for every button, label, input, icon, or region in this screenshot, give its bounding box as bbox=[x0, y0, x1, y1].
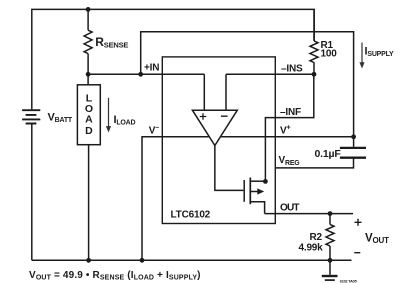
svg-text:VBATT: VBATT bbox=[48, 111, 73, 123]
svg-text:RSENSE: RSENSE bbox=[95, 35, 128, 50]
svg-text:V–: V– bbox=[149, 124, 159, 136]
svg-text:ILOAD: ILOAD bbox=[114, 114, 136, 126]
svg-text:4.99k: 4.99k bbox=[299, 243, 324, 254]
svg-text:–INS: –INS bbox=[281, 63, 303, 74]
svg-text:0.1µF: 0.1µF bbox=[315, 148, 342, 160]
svg-text:6102 TA05: 6102 TA05 bbox=[340, 279, 357, 283]
svg-text:A: A bbox=[85, 114, 93, 126]
svg-text:LTC6102: LTC6102 bbox=[171, 209, 211, 220]
svg-text:100: 100 bbox=[321, 49, 338, 60]
svg-text:D: D bbox=[85, 125, 93, 137]
svg-text:–INF: –INF bbox=[280, 107, 301, 118]
svg-text:R2: R2 bbox=[310, 232, 323, 243]
svg-text:V+: V+ bbox=[280, 124, 290, 136]
svg-text:VOUT: VOUT bbox=[365, 233, 389, 246]
svg-text:+IN: +IN bbox=[144, 63, 159, 74]
svg-text:VOUT = 49.9 • RSENSE (ILOAD +: VOUT = 49.9 • RSENSE (ILOAD + ISUPPLY) bbox=[29, 270, 201, 282]
svg-text:VREG: VREG bbox=[279, 155, 301, 167]
svg-text:ISUPPLY: ISUPPLY bbox=[365, 46, 395, 58]
svg-text:OUT: OUT bbox=[280, 203, 299, 214]
